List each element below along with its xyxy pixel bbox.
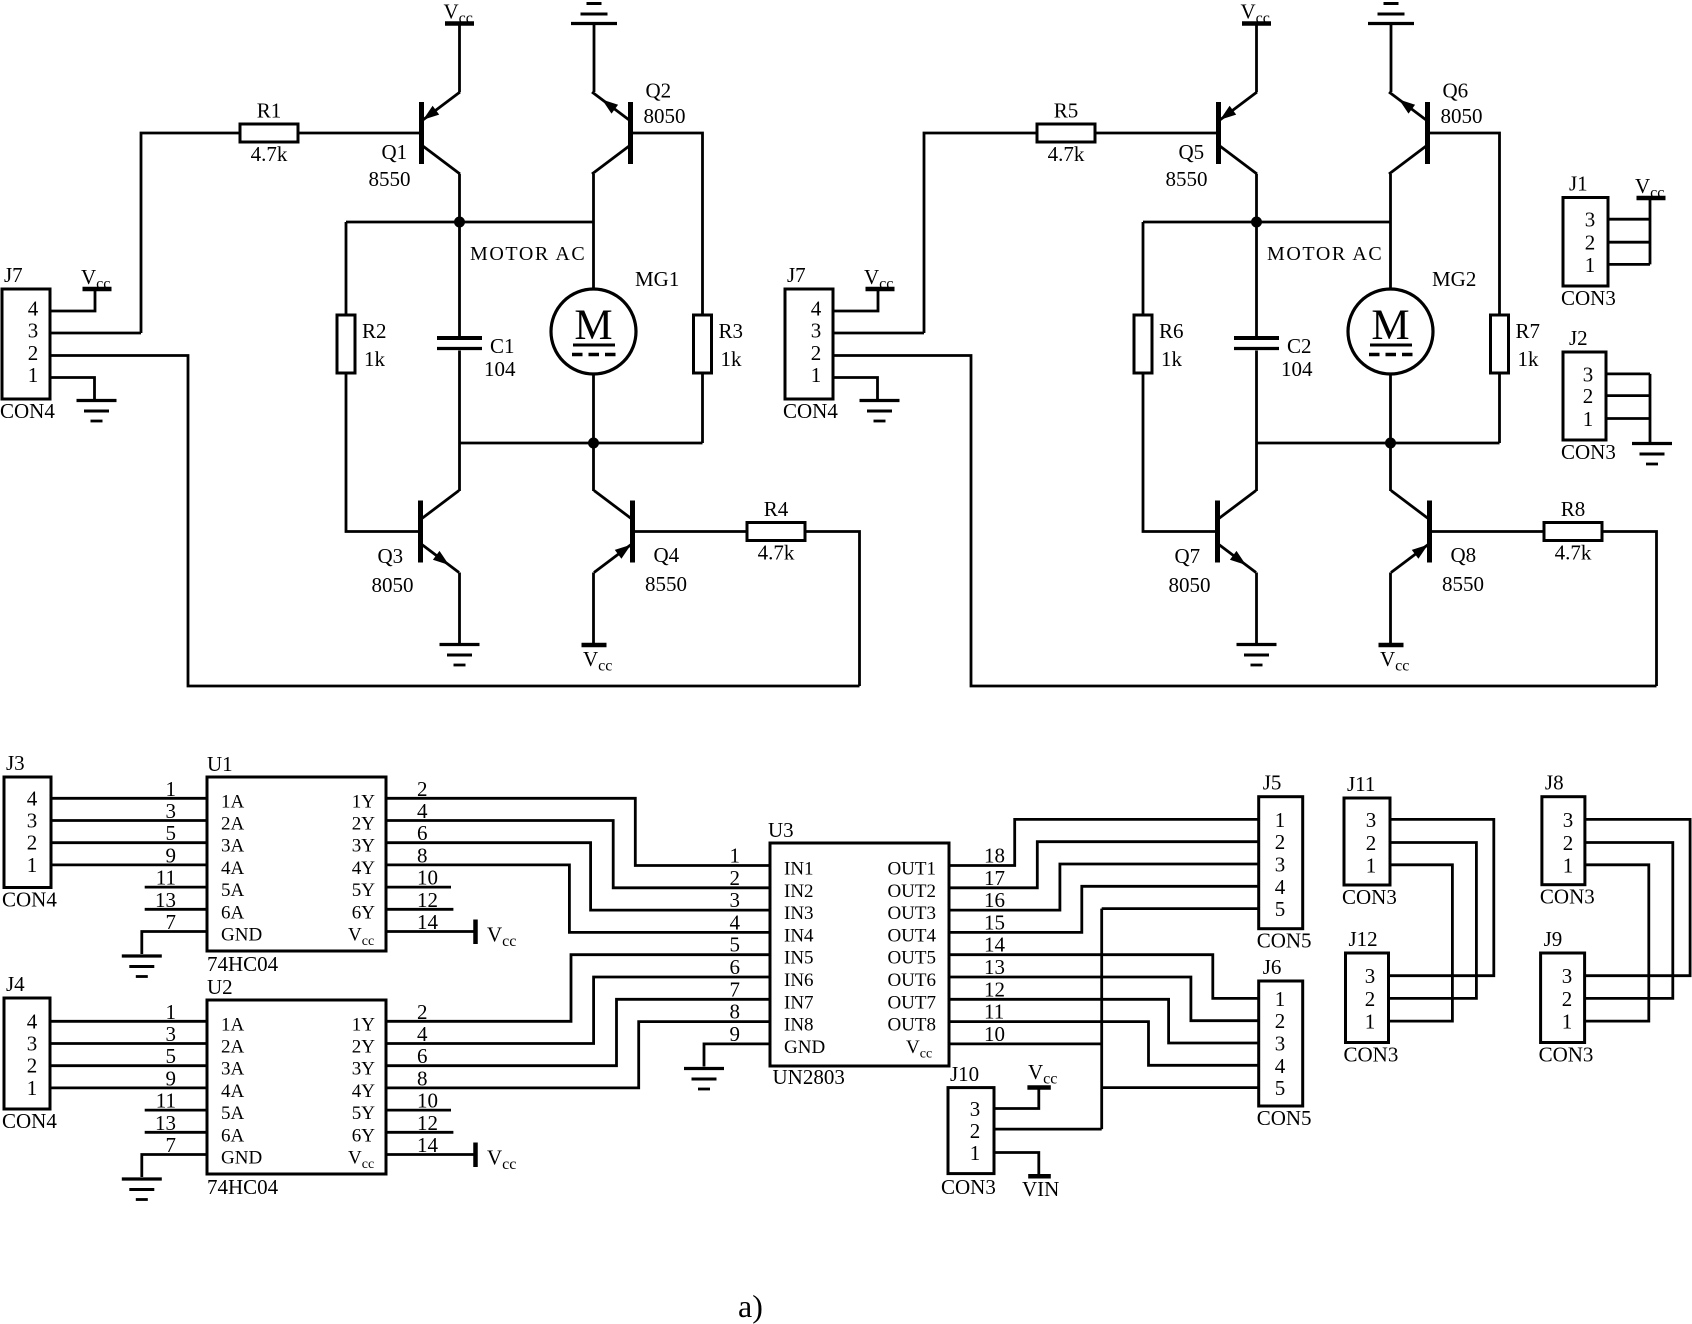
- U2 output pin numbers: [417, 1000, 439, 1157]
- connector J1 (CON3): [1561, 172, 1616, 311]
- svg-text:C2: C2: [1287, 334, 1312, 358]
- svg-text:J9: J9: [1544, 927, 1563, 951]
- svg-text:2: 2: [970, 1119, 981, 1143]
- svg-text:U2: U2: [207, 975, 233, 999]
- wire motor to bottom node: [592, 374, 595, 443]
- svg-text:4.7k: 4.7k: [251, 142, 288, 166]
- ground (inverted): [571, 4, 617, 24]
- resistor R8: [1544, 497, 1602, 565]
- wire J7 pin3: [833, 332, 924, 335]
- svg-text:Vcc: Vcc: [906, 1037, 932, 1062]
- wire node to R: [1142, 222, 1145, 315]
- svg-text:U1: U1: [207, 752, 233, 776]
- wire J10 pin1 to VIN: [994, 1153, 1039, 1175]
- wire R to Q base: [346, 373, 421, 532]
- connector J11 (CON3): [1342, 772, 1397, 909]
- wire U3 GND pin9 to ground: [704, 1044, 770, 1067]
- svg-text:5: 5: [166, 1044, 177, 1068]
- svg-text:4: 4: [28, 297, 39, 321]
- svg-text:Vcc: Vcc: [348, 1148, 374, 1173]
- svg-text:3: 3: [811, 319, 822, 343]
- connector J10 (CON3): [941, 1062, 996, 1199]
- svg-text:GND: GND: [221, 1148, 262, 1169]
- svg-text:1: 1: [1275, 987, 1286, 1011]
- svg-text:14: 14: [984, 933, 1006, 957]
- node junction: [1251, 217, 1262, 228]
- svg-text:Vcc: Vcc: [1028, 1060, 1057, 1088]
- wire J7 pin2 to bottom rail: [833, 356, 1657, 687]
- U1 input pin numbers: [155, 777, 176, 934]
- wire U3 OUT1 to J5 pin1: [949, 819, 1259, 865]
- wire capacitor to bottom rail: [1255, 351, 1258, 444]
- transistor Q1: [422, 92, 461, 174]
- transistor Q3: [421, 491, 460, 573]
- wire node to Q collector: [458, 443, 461, 491]
- wire U2 4Y to U3 IN8: [386, 1022, 770, 1088]
- svg-text:2: 2: [1585, 231, 1596, 255]
- svg-text:1: 1: [730, 844, 741, 868]
- svg-text:MG2: MG2: [1432, 267, 1476, 291]
- wire bottom node to Q collector: [592, 443, 595, 491]
- svg-text:4: 4: [811, 297, 822, 321]
- svg-text:1: 1: [1562, 1010, 1573, 1034]
- transistor Q6: [1389, 92, 1428, 174]
- svg-text:IN2: IN2: [784, 881, 814, 902]
- wire J1 pins to Vcc: [1608, 200, 1650, 264]
- IC U3 UN2803: [768, 818, 949, 1089]
- Q3 labels: [372, 544, 414, 597]
- ground: [1237, 645, 1277, 666]
- wire U1 1Y to U3 IN1: [386, 798, 770, 865]
- svg-text:Vcc: Vcc: [487, 1146, 516, 1174]
- svg-text:18: 18: [984, 844, 1005, 868]
- wire J8 pin2 to J9 pin2: [1585, 843, 1673, 999]
- wire base network Q1: [141, 133, 240, 333]
- svg-text:5: 5: [1275, 1076, 1286, 1100]
- svg-text:15: 15: [984, 910, 1005, 934]
- wire node to capacitor: [1255, 222, 1258, 336]
- svg-text:13: 13: [984, 955, 1005, 979]
- svg-text:2Y: 2Y: [352, 1037, 376, 1058]
- svg-text:CON3: CON3: [1539, 1043, 1594, 1067]
- svg-text:5Y: 5Y: [352, 880, 376, 901]
- svg-text:4: 4: [730, 910, 741, 934]
- svg-text:2: 2: [1583, 384, 1594, 408]
- U1 5Y 6Y stubs: [386, 887, 453, 909]
- U2 5Y 6Y stubs: [386, 1110, 453, 1132]
- wires J3 to U1 inputs: [51, 798, 207, 865]
- svg-text:3: 3: [1563, 808, 1574, 832]
- svg-text:Q8: Q8: [1451, 543, 1477, 567]
- transistor Q7: [1218, 491, 1257, 573]
- wire bottom horizontal: [1257, 442, 1500, 445]
- wire J7 pin1 to ground: [50, 378, 95, 400]
- wire node horizontal: [1143, 221, 1391, 224]
- svg-text:J8: J8: [1545, 771, 1564, 795]
- svg-text:5A: 5A: [221, 1103, 245, 1124]
- svg-text:1: 1: [811, 363, 822, 387]
- svg-text:3: 3: [166, 1022, 177, 1046]
- power symbol Vcc: [1635, 174, 1666, 202]
- svg-text:R1: R1: [257, 99, 282, 123]
- wires J4 to U2 inputs: [50, 1021, 207, 1088]
- svg-text:IN3: IN3: [784, 903, 814, 924]
- svg-text:1: 1: [166, 777, 177, 801]
- IC U1 74HC04: [207, 752, 386, 976]
- svg-text:Q5: Q5: [1179, 140, 1205, 164]
- wire U2 GND pin7 to ground: [142, 1155, 207, 1178]
- Q1 labels: [369, 140, 411, 191]
- Q8 labels: [1442, 543, 1484, 596]
- svg-text:J6: J6: [1263, 955, 1282, 979]
- svg-text:R4: R4: [764, 497, 789, 521]
- svg-text:104: 104: [1281, 357, 1313, 381]
- wire J11 pin3 to J12 pin3: [1389, 819, 1494, 975]
- transistor Q2: [592, 92, 631, 174]
- wire J8 pin1 to J9 pin1: [1585, 865, 1649, 1021]
- svg-text:OUT2: OUT2: [887, 881, 936, 902]
- svg-text:9: 9: [166, 1066, 177, 1090]
- svg-text:IN1: IN1: [784, 859, 814, 880]
- svg-text:17: 17: [984, 866, 1005, 890]
- svg-text:R6: R6: [1159, 319, 1184, 343]
- svg-text:3: 3: [970, 1097, 981, 1121]
- svg-text:3A: 3A: [221, 836, 245, 857]
- power symbol Vcc: [444, 0, 475, 27]
- svg-text:1: 1: [1563, 853, 1574, 877]
- svg-text:3: 3: [1562, 964, 1573, 988]
- connector J7 (CON4): [783, 263, 838, 423]
- wire Q base to R: [635, 530, 747, 533]
- node junction bottom: [588, 438, 599, 449]
- svg-text:2: 2: [1275, 1009, 1286, 1033]
- svg-text:5: 5: [730, 933, 741, 957]
- svg-text:J1: J1: [1569, 172, 1588, 196]
- svg-text:2: 2: [28, 341, 39, 365]
- svg-text:2: 2: [1366, 831, 1377, 855]
- svg-text:3: 3: [166, 799, 177, 823]
- wire U1 pin14 to Vcc: [386, 930, 474, 933]
- svg-text:OUT3: OUT3: [887, 903, 936, 924]
- svg-text:CON3: CON3: [1561, 440, 1616, 464]
- ground: [440, 645, 480, 666]
- svg-text:4: 4: [27, 786, 38, 810]
- wire Q collector to motor: [592, 174, 595, 289]
- connector J5 (CON5): [1257, 771, 1312, 953]
- svg-text:8550: 8550: [1442, 572, 1484, 596]
- svg-text:R7: R7: [1516, 319, 1541, 343]
- svg-text:5A: 5A: [221, 880, 245, 901]
- wire J7 pin1 to ground: [833, 378, 878, 400]
- wire Q base to R: [1432, 530, 1544, 533]
- svg-text:J11: J11: [1347, 772, 1375, 796]
- svg-text:OUT4: OUT4: [887, 925, 936, 946]
- svg-text:IN8: IN8: [784, 1015, 814, 1036]
- wire bottom horizontal: [460, 442, 703, 445]
- wire node horizontal: [346, 221, 594, 224]
- wire U1 3Y to U3 IN3: [386, 843, 770, 910]
- svg-text:U3: U3: [768, 818, 794, 842]
- svg-text:3Y: 3Y: [352, 836, 376, 857]
- svg-text:4: 4: [1275, 1054, 1286, 1078]
- svg-text:OUT6: OUT6: [887, 970, 936, 991]
- connector J9 (CON3): [1539, 927, 1594, 1067]
- svg-text:74HC04: 74HC04: [207, 1175, 279, 1199]
- svg-text:C1: C1: [490, 334, 515, 358]
- connector J8 (CON3): [1540, 771, 1595, 909]
- svg-text:1: 1: [1583, 407, 1594, 431]
- wire Q emitter to Vcc: [1389, 573, 1392, 644]
- resistor R6: [1134, 315, 1184, 373]
- U3 output pin numbers: [984, 844, 1006, 1046]
- svg-text:4Y: 4Y: [352, 858, 376, 879]
- wire Vcc net: J5 pin5 / U3 Vcc pin10 / J6 pin5 / J10 pin2: [949, 909, 1259, 1130]
- svg-text:1A: 1A: [221, 791, 245, 812]
- power symbol Vcc (J10): [1027, 1060, 1057, 1088]
- svg-text:4: 4: [27, 1009, 38, 1033]
- svg-text:CON3: CON3: [1561, 286, 1616, 310]
- svg-text:Vcc: Vcc: [81, 265, 110, 293]
- svg-text:R5: R5: [1054, 99, 1079, 123]
- resistor R4: [747, 497, 805, 565]
- connector J6 (CON5): [1257, 955, 1312, 1130]
- wire J8 pin3 to J9 pin3: [1585, 819, 1691, 975]
- svg-text:J2: J2: [1569, 326, 1588, 350]
- connector J12 (CON3): [1344, 927, 1399, 1067]
- ground: [684, 1069, 724, 1090]
- svg-text:1k: 1k: [364, 347, 386, 371]
- resistor R5: [1037, 99, 1095, 167]
- wire top ground to Q6 emitter: [1390, 24, 1393, 92]
- svg-text:VIN: VIN: [1022, 1177, 1059, 1201]
- power symbol Vcc: [864, 265, 895, 293]
- svg-text:CON5: CON5: [1257, 1106, 1312, 1130]
- svg-text:1: 1: [27, 853, 38, 877]
- wire U1 GND pin7 to ground: [142, 932, 207, 955]
- svg-text:1Y: 1Y: [352, 791, 376, 812]
- svg-text:2: 2: [811, 341, 822, 365]
- svg-text:1: 1: [1275, 808, 1286, 832]
- svg-text:7: 7: [730, 977, 741, 1001]
- svg-text:IN4: IN4: [784, 925, 814, 946]
- wire U3 OUT3 to J5 pin3: [949, 864, 1259, 910]
- svg-text:CON3: CON3: [1342, 885, 1397, 909]
- ground: [860, 401, 900, 422]
- connector J7 (CON4): [0, 263, 55, 423]
- svg-text:11: 11: [984, 1000, 1004, 1024]
- svg-text:J10: J10: [950, 1062, 979, 1086]
- power symbol Vcc: [81, 265, 112, 293]
- svg-text:J3: J3: [6, 751, 25, 775]
- wire collector to node: [1255, 174, 1258, 222]
- power symbol Vcc (U1 pin14): [476, 920, 517, 951]
- svg-text:4A: 4A: [221, 858, 245, 879]
- wire collector to node: [458, 174, 461, 222]
- svg-text:16: 16: [984, 888, 1005, 912]
- wire J11 pin1 to J12 pin1: [1389, 865, 1453, 1021]
- svg-text:10: 10: [984, 1022, 1005, 1046]
- svg-text:CON4: CON4: [783, 399, 838, 423]
- svg-text:6A: 6A: [221, 902, 245, 923]
- svg-text:1: 1: [970, 1141, 981, 1165]
- svg-text:8550: 8550: [369, 167, 411, 191]
- wire bottom node to Q collector: [1389, 443, 1392, 491]
- svg-text:3A: 3A: [221, 1059, 245, 1080]
- svg-text:9: 9: [730, 1022, 741, 1046]
- svg-text:3: 3: [1583, 362, 1594, 386]
- resistor R1: [240, 99, 298, 167]
- svg-text:74HC04: 74HC04: [207, 952, 279, 976]
- svg-text:5: 5: [1275, 897, 1286, 921]
- svg-text:R3: R3: [719, 319, 744, 343]
- connector J3 (CON4): [2, 751, 57, 912]
- U2 5A 6A stubs: [145, 1110, 207, 1132]
- svg-text:2: 2: [1562, 987, 1573, 1011]
- svg-text:J4: J4: [6, 972, 25, 996]
- svg-text:12: 12: [984, 977, 1005, 1001]
- wire base network Q5: [924, 133, 1037, 333]
- Q7 labels: [1169, 544, 1211, 597]
- svg-text:a): a): [738, 1288, 763, 1324]
- svg-text:Q2: Q2: [646, 79, 672, 103]
- IC U2 74HC04: [207, 975, 386, 1199]
- power symbol Vcc: [1379, 645, 1410, 675]
- wire Q base to R: [1430, 133, 1500, 315]
- Q2 labels: [644, 79, 686, 129]
- wire U2 1Y to U3 IN5: [386, 955, 770, 1022]
- svg-text:8050: 8050: [644, 104, 686, 128]
- svg-text:OUT1: OUT1: [887, 859, 936, 880]
- connector J2 (CON3): [1561, 326, 1616, 464]
- wire J7 pin4 to Vcc: [833, 291, 878, 311]
- svg-text:Vcc: Vcc: [1635, 174, 1664, 202]
- svg-text:IN7: IN7: [784, 992, 814, 1013]
- svg-text:1: 1: [1585, 253, 1596, 277]
- wire Q emitter to Vcc: [592, 573, 595, 644]
- svg-text:3Y: 3Y: [352, 1059, 376, 1080]
- transistor Q4: [594, 491, 633, 573]
- ground: [122, 956, 162, 977]
- ground: [1632, 444, 1672, 465]
- wire J7 pin3: [50, 332, 141, 335]
- U2 input pin numbers: [155, 1000, 176, 1157]
- wire R to Q base: [298, 132, 422, 135]
- svg-text:OUT5: OUT5: [887, 948, 936, 969]
- wire R to bottom wire: [1498, 373, 1501, 443]
- svg-text:3: 3: [730, 888, 741, 912]
- svg-text:1: 1: [166, 1000, 177, 1024]
- wire capacitor to bottom rail: [458, 351, 461, 444]
- svg-text:2A: 2A: [221, 1037, 245, 1058]
- wire J11 pin2 to J12 pin2: [1389, 843, 1477, 999]
- capacitor C2: [1234, 334, 1313, 381]
- svg-text:Vcc: Vcc: [348, 925, 374, 950]
- svg-text:4: 4: [1275, 875, 1286, 899]
- wire U3 OUT7 to J6 pin3: [949, 999, 1259, 1043]
- wire motor to bottom node: [1389, 374, 1392, 443]
- svg-text:1k: 1k: [721, 347, 743, 371]
- svg-text:9: 9: [166, 843, 177, 867]
- svg-text:3: 3: [28, 319, 39, 343]
- connector J4 (CON4): [2, 972, 57, 1133]
- svg-text:MOTOR AC: MOTOR AC: [470, 243, 586, 265]
- svg-text:3: 3: [1585, 208, 1596, 232]
- power symbol Vcc: [1241, 0, 1272, 27]
- svg-text:2: 2: [27, 831, 38, 855]
- wire R to bottom rail: [806, 532, 860, 687]
- wire U3 OUT5 to J6 pin1: [949, 955, 1259, 999]
- svg-text:MOTOR AC: MOTOR AC: [1267, 243, 1383, 265]
- svg-text:Vcc: Vcc: [1241, 0, 1270, 27]
- wire node to Q collector: [1255, 443, 1258, 491]
- Q5 labels: [1166, 140, 1208, 191]
- wire U3 OUT4 to J5 pin4: [949, 886, 1259, 932]
- wire R to bottom rail: [1603, 532, 1657, 687]
- motor MG2: [1348, 289, 1433, 374]
- wire U3 OUT6 to J6 pin2: [949, 977, 1259, 1021]
- svg-text:4A: 4A: [221, 1081, 245, 1102]
- svg-text:4.7k: 4.7k: [758, 541, 795, 565]
- transistor Q5: [1219, 92, 1258, 174]
- svg-text:6Y: 6Y: [352, 902, 376, 923]
- svg-text:1A: 1A: [221, 1014, 245, 1035]
- svg-text:GND: GND: [784, 1037, 825, 1058]
- svg-text:R8: R8: [1561, 497, 1586, 521]
- svg-text:Q6: Q6: [1443, 79, 1469, 103]
- resistor R7: [1491, 315, 1541, 373]
- svg-text:Q3: Q3: [378, 544, 404, 568]
- wire Q base to R: [633, 133, 703, 315]
- svg-text:4Y: 4Y: [352, 1081, 376, 1102]
- svg-text:1k: 1k: [1161, 347, 1183, 371]
- svg-text:CON5: CON5: [1257, 929, 1312, 953]
- svg-text:8: 8: [730, 1000, 741, 1024]
- svg-text:CON3: CON3: [1344, 1043, 1399, 1067]
- power symbol VIN: [1022, 1176, 1059, 1201]
- node junction: [454, 217, 465, 228]
- svg-text:M: M: [574, 302, 612, 349]
- svg-text:MG1: MG1: [635, 267, 679, 291]
- U3 input pin numbers: [730, 844, 741, 1046]
- svg-text:1: 1: [1366, 853, 1377, 877]
- wire U2 3Y to U3 IN7: [386, 999, 770, 1065]
- wire J7 pin2 to bottom rail: [50, 356, 860, 687]
- svg-text:J12: J12: [1349, 927, 1378, 951]
- capacitor C1: [437, 334, 516, 381]
- ground: [122, 1179, 162, 1200]
- svg-text:3: 3: [1366, 808, 1377, 832]
- svg-text:OUT8: OUT8: [887, 1015, 936, 1036]
- svg-text:5: 5: [166, 821, 177, 845]
- svg-text:4.7k: 4.7k: [1555, 541, 1592, 565]
- svg-text:8550: 8550: [1166, 167, 1208, 191]
- svg-text:J7: J7: [787, 263, 806, 287]
- svg-text:Q4: Q4: [654, 543, 680, 567]
- svg-text:CON4: CON4: [2, 888, 57, 912]
- svg-text:CON4: CON4: [2, 1109, 57, 1133]
- svg-text:1: 1: [1365, 1010, 1376, 1034]
- Q6 labels: [1441, 79, 1483, 129]
- ground (inverted): [1368, 4, 1414, 24]
- svg-text:1k: 1k: [1518, 347, 1540, 371]
- wire U3 OUT2 to J5 pin2: [949, 842, 1259, 888]
- wire node to capacitor: [458, 222, 461, 336]
- svg-text:104: 104: [484, 357, 516, 381]
- svg-text:3: 3: [27, 1032, 38, 1056]
- wire J7 pin4 to Vcc: [50, 291, 95, 311]
- ground: [77, 401, 117, 422]
- wire Vcc to Q5 emitter: [1255, 26, 1258, 93]
